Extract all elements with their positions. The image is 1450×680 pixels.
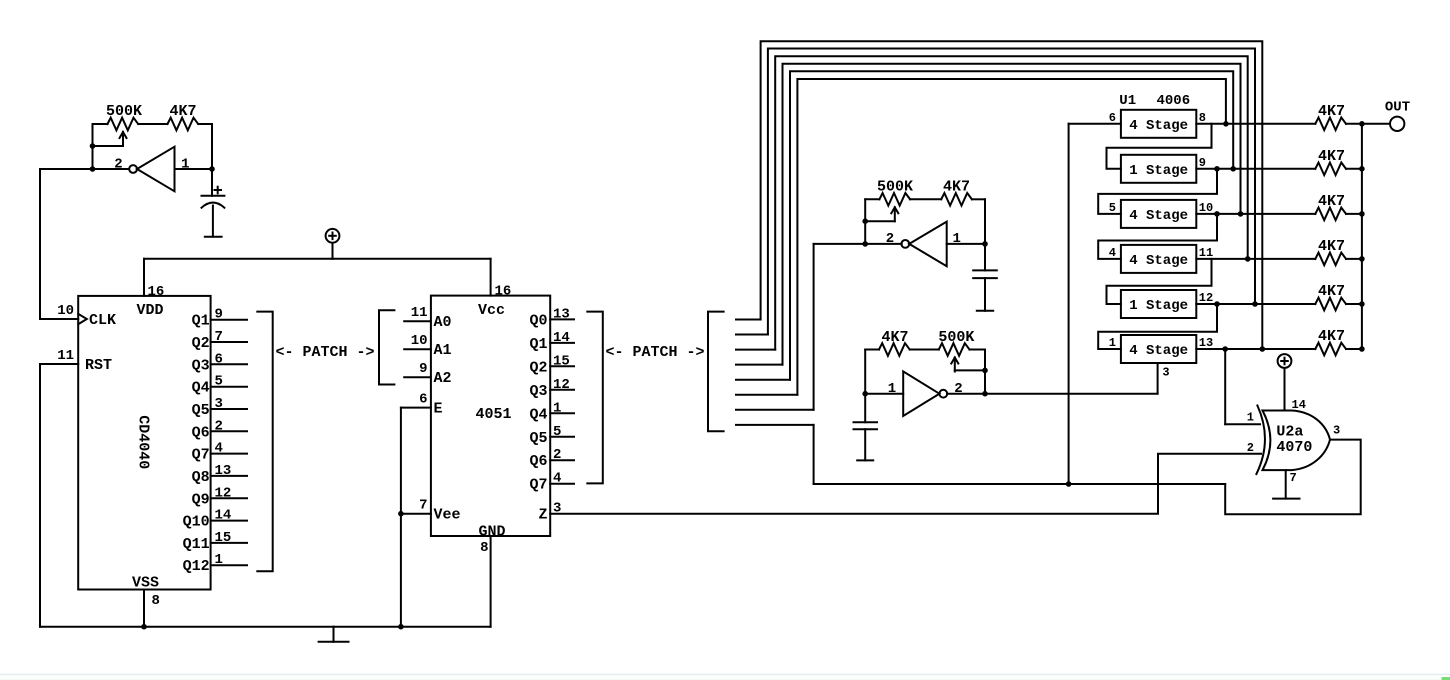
shift register stage box 5 (1 Stage): [1121, 290, 1196, 318]
svg-text:11: 11: [1199, 246, 1213, 260]
junction dot row 6 rail: [1359, 346, 1365, 352]
potentiometer 500K (osc3) body: [939, 343, 970, 356]
shift register stage box 3 (4 Stage): [1121, 200, 1196, 228]
junction dot osc3 output node: [982, 391, 988, 397]
svg-text:1: 1: [1109, 336, 1116, 350]
svg-text:2: 2: [886, 231, 894, 247]
svg-text:11: 11: [411, 305, 428, 321]
svg-text:15: 15: [553, 353, 570, 369]
svg-text:16: 16: [148, 284, 165, 300]
wire: XOR pin1 stub: [1225, 423, 1260, 425]
wire: osc2 left vertical: [864, 199, 866, 244]
wire: CD4040 Q3 stub: [211, 363, 247, 365]
wire: bus line 3: [775, 56, 1247, 349]
wire: osc1 inverter input lead: [175, 168, 213, 170]
wire: bus line 5: [790, 71, 1233, 379]
svg-text:Q2: Q2: [529, 359, 547, 376]
wire: feedback horizontal: [814, 483, 1226, 485]
svg-text:A2: A2: [434, 370, 452, 387]
wire: row 3 resistor lead: [1346, 213, 1362, 215]
IC 4051 body: [431, 296, 550, 536]
wire: stage 1 output row: [1196, 123, 1315, 125]
power +V symbol: [326, 229, 340, 243]
svg-text:Vcc: Vcc: [478, 302, 505, 319]
junction dot row 2 rail: [1359, 166, 1365, 172]
wire: 4051 Vee stub: [401, 513, 431, 515]
decor: green corner mark: [1442, 677, 1450, 680]
potentiometer 500K (osc1) wiper arrow: [122, 132, 124, 146]
wire: osc1 feedback top rail: [93, 123, 108, 125]
wire: CD4040 Q8 stub: [211, 475, 247, 477]
svg-text:14: 14: [215, 508, 232, 524]
wire: XOR output wrap: [1225, 440, 1361, 515]
svg-text:Q12: Q12: [183, 558, 210, 575]
junction dot VSS/rail: [141, 624, 147, 630]
svg-text:10: 10: [57, 303, 74, 319]
svg-text:CD4040: CD4040: [134, 415, 151, 469]
wire: osc3 output to 4006 clock: [947, 393, 1158, 395]
svg-text:14: 14: [553, 330, 570, 346]
svg-text:<- PATCH ->: <- PATCH ->: [605, 344, 704, 361]
junction dot osc3 input node: [862, 391, 868, 397]
wire: CD4040 VSS drop: [143, 590, 145, 627]
wire: 4051 Q3 stub: [550, 389, 574, 391]
junction dot row 1 rail: [1359, 121, 1365, 127]
wire: osc1 output to CLK corner: [40, 168, 128, 170]
svg-text:1 Stage: 1 Stage: [1129, 163, 1188, 179]
junction dot osc1 input node: [209, 166, 215, 172]
svg-text:RST: RST: [85, 357, 112, 374]
capacitor C3 plates: [854, 421, 878, 423]
wire: row 6 resistor lead: [1346, 348, 1362, 350]
wire: stage 3 output row: [1196, 213, 1315, 215]
wire: summing rail: [1361, 124, 1363, 349]
wire: feedback vertical to stage1 input: [1068, 124, 1070, 484]
svg-text:1: 1: [888, 381, 896, 397]
svg-text:Q6: Q6: [192, 424, 210, 441]
svg-text:7: 7: [1290, 471, 1297, 485]
svg-text:Q6: Q6: [529, 453, 547, 470]
svg-text:Q4: Q4: [529, 406, 547, 423]
svg-text:A1: A1: [434, 342, 452, 359]
wire: osc3 rail middle: [910, 349, 939, 351]
svg-text:Q5: Q5: [529, 430, 547, 447]
svg-text:1: 1: [181, 157, 189, 173]
wire: stage5-stage6 link: [1098, 304, 1217, 349]
svg-text:4070: 4070: [1276, 439, 1312, 456]
wire: 4051 GND drop: [490, 536, 492, 627]
wire: osc2 rail middle: [910, 198, 941, 200]
wire: CD4040 VDD riser: [143, 259, 145, 296]
potentiometer 500K (osc3) wiper arrow: [954, 358, 956, 372]
svg-text:U1: U1: [1119, 93, 1136, 109]
svg-text:6: 6: [1109, 111, 1116, 125]
wire: C2 bottom lead: [984, 278, 986, 311]
wire: osc1 left vertical: [92, 124, 94, 169]
wire: osc3 top rail left lead: [865, 349, 879, 351]
svg-text:GND: GND: [478, 524, 505, 541]
svg-text:4: 4: [215, 441, 223, 457]
svg-text:4K7: 4K7: [169, 103, 196, 120]
svg-text:Q4: Q4: [192, 380, 210, 397]
xor gate U2a body: [1263, 411, 1331, 471]
wire: Z to XOR pin2: [550, 454, 1261, 514]
svg-text:8: 8: [1199, 111, 1206, 125]
junction dot row 4 rail: [1359, 256, 1365, 262]
svg-text:Q3: Q3: [192, 357, 210, 374]
resistor 4K7 (row 2): [1315, 163, 1346, 176]
junction dot bus 4 tap: [1238, 211, 1244, 217]
svg-text:Q10: Q10: [183, 514, 210, 531]
resistor 4K7 (osc3): [879, 343, 910, 356]
CLK clock wedge: [78, 314, 87, 324]
wire: 4051 Q4 stub: [550, 412, 574, 414]
svg-text:4006: 4006: [1157, 93, 1191, 109]
wire: osc2 rail right lead: [972, 198, 985, 200]
shift register stage box 2 (1 Stage): [1121, 155, 1196, 183]
wire: osc1 output down to CLK: [40, 169, 78, 319]
wire: 4051 Q6 stub: [550, 459, 574, 461]
svg-text:16: 16: [495, 284, 512, 300]
svg-text:9: 9: [215, 307, 223, 323]
wire: CD4040 Q12 stub: [211, 564, 247, 566]
svg-text:12: 12: [1199, 291, 1213, 305]
wire: stage 5 output row: [1196, 303, 1315, 305]
svg-text:OUT: OUT: [1385, 100, 1410, 116]
svg-text:7: 7: [419, 498, 427, 514]
svg-text:4051: 4051: [475, 406, 511, 423]
capacitor C1 curved plate: [202, 203, 225, 208]
svg-text:Q11: Q11: [183, 536, 210, 553]
svg-text:Vee: Vee: [434, 507, 461, 524]
potentiometer 500K (osc2) wiper arrow: [894, 207, 896, 221]
OUT terminal circle: [1390, 117, 1404, 131]
junction dot bus 6 tap: [1223, 121, 1229, 127]
svg-text:5: 5: [1109, 201, 1116, 215]
wire: VDD supply rail: [144, 258, 491, 260]
wire: osc2 right vertical: [984, 199, 986, 270]
svg-text:13: 13: [553, 306, 570, 322]
wire: osc2 output wire: [814, 243, 902, 245]
svg-text:4: 4: [553, 471, 561, 487]
svg-text:4K7: 4K7: [1318, 238, 1345, 255]
svg-text:Q7: Q7: [529, 477, 547, 494]
wire: CD4040 Q7 stub: [211, 453, 247, 455]
svg-text:500K: 500K: [877, 178, 913, 195]
wire: stage6 out to XOR pin1: [1224, 349, 1226, 424]
svg-text:4K7: 4K7: [1318, 283, 1345, 300]
svg-text:8: 8: [480, 540, 488, 556]
svg-text:8: 8: [152, 593, 160, 609]
capacitor C1 + mark: [215, 189, 222, 191]
wire: RST down to ground rail: [39, 364, 41, 627]
svg-text:Z: Z: [538, 507, 547, 524]
capacitor C2 plates: [973, 269, 997, 271]
wire: bus line 6: [797, 79, 1226, 395]
svg-text:4K7: 4K7: [1318, 148, 1345, 165]
ground bar below C1: [205, 236, 222, 238]
svg-text:13: 13: [215, 463, 232, 479]
wire: stage3-stage4 link: [1098, 214, 1217, 259]
junction dot stage6 tap: [1222, 346, 1228, 352]
wire: osc1 right vertical: [211, 124, 213, 196]
wire: 4051 A0 stub: [404, 320, 431, 322]
wire: stage2-stage3 link: [1098, 169, 1217, 214]
svg-text:Q3: Q3: [529, 383, 547, 400]
svg-text:5: 5: [553, 424, 561, 440]
svg-text:4 Stage: 4 Stage: [1129, 118, 1188, 134]
wire: stage1 input stub: [1069, 123, 1121, 125]
shift register stage box 1 (4 Stage): [1121, 110, 1196, 138]
wire: patch stub 4: [736, 364, 783, 366]
capacitor C1 top plate: [202, 195, 225, 197]
svg-text:1: 1: [553, 400, 561, 416]
svg-text:VSS: VSS: [132, 575, 159, 592]
junction dot feedback branch: [1066, 481, 1072, 487]
IC CD4040 body: [78, 296, 210, 590]
wire: patch stub 6: [736, 394, 797, 396]
resistor 4K7 (row 1): [1315, 118, 1346, 131]
svg-text:3: 3: [1162, 366, 1169, 380]
svg-text:CLK: CLK: [89, 312, 116, 329]
inverter (osc2, pins 2-1): [901, 240, 909, 248]
wire: osc1 wiper to left leg: [93, 145, 124, 147]
ground bar (XOR pin7): [1273, 498, 1299, 500]
svg-text:Q0: Q0: [529, 312, 547, 329]
inverter (osc3, pins 1-2): [903, 371, 939, 416]
wire: E/Vee down to ground rail: [400, 408, 402, 627]
junction dot bus 5 tap: [1230, 166, 1236, 172]
junction dot osc2 wiper: [862, 218, 868, 224]
svg-text:Q7: Q7: [192, 447, 210, 464]
decor: faint bottom band: [0, 679, 1450, 680]
svg-text:4 Stage: 4 Stage: [1129, 343, 1188, 359]
wire: CD4040 Q10 stub: [211, 520, 247, 522]
wire: osc2 inverter input lead: [947, 243, 985, 245]
wire: 4051 A1 stub: [404, 348, 431, 350]
wire: patch stub 3: [736, 349, 775, 351]
junction dot stage3 link: [1214, 211, 1220, 217]
svg-text:Q1: Q1: [192, 313, 210, 330]
svg-text:1: 1: [1247, 410, 1254, 424]
resistor 4K7 (osc2): [941, 193, 972, 206]
junction dot bus 2 tap: [1252, 301, 1258, 307]
svg-text:2: 2: [1247, 441, 1254, 455]
svg-text:14: 14: [1292, 398, 1306, 412]
svg-text:10: 10: [411, 333, 428, 349]
wire: OUT lead: [1362, 123, 1389, 125]
wire: C3 bottom lead: [864, 429, 866, 460]
wire: osc3 wiper leg: [955, 369, 985, 371]
wire: stage 6 output row: [1196, 348, 1315, 350]
wire: C1 bottom lead: [212, 206, 214, 237]
wire: osc3 left vertical: [864, 350, 866, 423]
svg-text:11: 11: [57, 348, 74, 364]
junction dot osc1 wiper: [90, 143, 96, 149]
wire: bus line 1: [761, 41, 1263, 349]
svg-text:3: 3: [1333, 424, 1340, 438]
svg-text:Q2: Q2: [192, 335, 210, 352]
wire: row 1 resistor lead: [1346, 123, 1362, 125]
wire: RST stub: [40, 363, 78, 365]
wire: patch stub 5: [736, 379, 790, 381]
wire: stage 2 output row: [1196, 168, 1315, 170]
svg-text:9: 9: [419, 361, 427, 377]
wire: CD4040 Q11 stub: [211, 542, 247, 544]
svg-text:7: 7: [215, 329, 223, 345]
wire: CD4040 Q6 stub: [211, 430, 247, 432]
wire: 4051 Q0 stub: [550, 318, 574, 320]
wire: 4006 clock riser: [1157, 363, 1159, 394]
svg-text:6: 6: [419, 392, 427, 408]
wire: patch stub 8: [736, 424, 814, 426]
resistor 4K7 (osc1): [168, 118, 199, 131]
wire: stage1-stage2 link: [1107, 124, 1212, 169]
wire: XOR pin7 ground lead: [1285, 470, 1287, 499]
svg-text:12: 12: [553, 377, 570, 393]
svg-text:4K7: 4K7: [1318, 193, 1345, 210]
wire: osc1 rail between pot and R: [138, 123, 167, 125]
svg-text:4 Stage: 4 Stage: [1129, 253, 1188, 269]
svg-text:500K: 500K: [106, 103, 142, 120]
wire: osc3 input wire: [865, 393, 903, 395]
wire: patch stub 8 drop: [813, 425, 815, 484]
shift register stage box 4 (4 Stage): [1121, 245, 1196, 273]
svg-text:Q8: Q8: [192, 469, 210, 486]
ground bar below C3: [857, 459, 873, 461]
wire: bus line 4: [783, 64, 1241, 365]
svg-text:VDD: VDD: [136, 302, 163, 319]
svg-text:Q1: Q1: [529, 336, 547, 353]
wire: 4051 Q1 stub: [550, 342, 574, 344]
wire: 4051 A2 stub: [404, 376, 431, 378]
wire: osc1 rail right lead: [198, 123, 212, 125]
svg-text:4K7: 4K7: [943, 178, 970, 195]
bracket: 4051 address patch: [379, 310, 394, 384]
svg-text:6: 6: [215, 351, 223, 367]
wire: 4051 Q2 stub: [550, 365, 574, 367]
junction dot osc2 input node: [982, 241, 988, 247]
svg-text:4K7: 4K7: [881, 329, 908, 346]
wire: stage4-stage5 link: [1107, 259, 1212, 304]
svg-text:E: E: [434, 401, 443, 418]
wire: row 4 resistor lead: [1346, 258, 1362, 260]
wire: osc2 top rail left corner: [865, 198, 879, 200]
svg-text:9: 9: [1199, 156, 1206, 170]
wire: 4051 Q5 stub: [550, 436, 574, 438]
junction dot E/Vee: [398, 511, 404, 517]
wire: row 2 resistor lead: [1346, 168, 1362, 170]
resistor 4K7 (row 4): [1315, 253, 1346, 266]
wire: +V stub: [332, 243, 334, 259]
power +V symbol (XOR): [1278, 354, 1292, 368]
wire: CD4040 Q9 stub: [211, 497, 247, 499]
junction dot osc1 output node: [90, 166, 96, 172]
wire: osc3 right vertical: [984, 350, 986, 394]
svg-text:3: 3: [215, 396, 223, 412]
resistor 4K7 (row 5): [1315, 298, 1346, 311]
wire: 4051 Vcc riser: [490, 259, 492, 296]
wire: patch stub 7: [736, 409, 814, 411]
svg-text:500K: 500K: [938, 329, 974, 346]
bracket: CD4040 outputs patch: [257, 312, 272, 572]
wire: row 5 resistor lead: [1346, 303, 1362, 305]
svg-text:10: 10: [1199, 201, 1213, 215]
svg-text:5: 5: [215, 374, 223, 390]
junction dot stage2 link: [1214, 166, 1220, 172]
potentiometer 500K (osc1) body: [108, 118, 139, 131]
svg-text:2: 2: [553, 447, 561, 463]
bracket: 4006 taps patch: [708, 312, 724, 432]
svg-text:4K7: 4K7: [1318, 103, 1345, 120]
potentiometer 500K (osc2) body: [879, 193, 910, 206]
wire: patch stub 2: [736, 334, 768, 336]
wire: stage 4 output row: [1196, 258, 1315, 260]
svg-text:15: 15: [215, 530, 232, 546]
svg-text:Q9: Q9: [192, 491, 210, 508]
svg-text:2: 2: [114, 157, 122, 173]
junction dot bus 3 tap: [1245, 256, 1251, 262]
svg-text:4 Stage: 4 Stage: [1129, 208, 1188, 224]
svg-text:13: 13: [1199, 336, 1213, 350]
wire: CD4040 Q1 stub: [211, 319, 247, 321]
ground symbol: [333, 627, 335, 642]
svg-text:Q5: Q5: [192, 402, 210, 419]
junction dot bus 1 tap: [1260, 346, 1266, 352]
wire: 4051 E stub: [401, 407, 431, 409]
shift register stage box 6 (4 Stage): [1121, 335, 1196, 363]
wire: ground rail: [40, 626, 491, 628]
wire: CD4040 Q4 stub: [211, 386, 247, 388]
wire: osc2 wiper leg: [865, 220, 895, 222]
svg-text:1: 1: [215, 552, 223, 568]
svg-text:12: 12: [215, 485, 232, 501]
wire: XOR pin14 supply: [1284, 368, 1286, 410]
resistor 4K7 (row 6): [1315, 343, 1346, 356]
wire: osc3 rail right lead: [970, 349, 986, 351]
junction dot osc2 output node: [862, 241, 868, 247]
xor gate input arc: [1256, 406, 1265, 475]
svg-text:<- PATCH ->: <- PATCH ->: [275, 344, 374, 361]
inverter gate (osc1, pins 2-1): [129, 165, 137, 173]
wire: CD4040 Q5 stub: [211, 408, 247, 410]
decor: faint divider line: [0, 674, 1450, 676]
junction dot E-Vee/rail: [398, 624, 404, 630]
wire: osc2 output down to patch stub 7: [813, 244, 815, 410]
wire: patch stub 1: [736, 319, 761, 321]
resistor 4K7 (row 3): [1315, 208, 1346, 221]
svg-text:4K7: 4K7: [1318, 328, 1345, 345]
wire: CD4040 Q2 stub: [211, 341, 247, 343]
svg-text:4: 4: [1109, 246, 1116, 260]
svg-text:A0: A0: [434, 314, 452, 331]
ground bar below C2: [977, 310, 993, 312]
svg-text:2: 2: [215, 418, 223, 434]
svg-text:1 Stage: 1 Stage: [1129, 298, 1188, 314]
wire: 4051 Q7 stub: [550, 483, 574, 485]
junction dot stage5 link: [1214, 301, 1220, 307]
wire: bus line 2: [768, 49, 1255, 335]
junction dot osc3 wiper: [982, 368, 988, 374]
svg-text:2: 2: [954, 381, 962, 397]
junction dot row 5 rail: [1359, 301, 1365, 307]
bracket: 4051 outputs patch: [587, 312, 603, 484]
junction dot row 3 rail: [1359, 211, 1365, 217]
